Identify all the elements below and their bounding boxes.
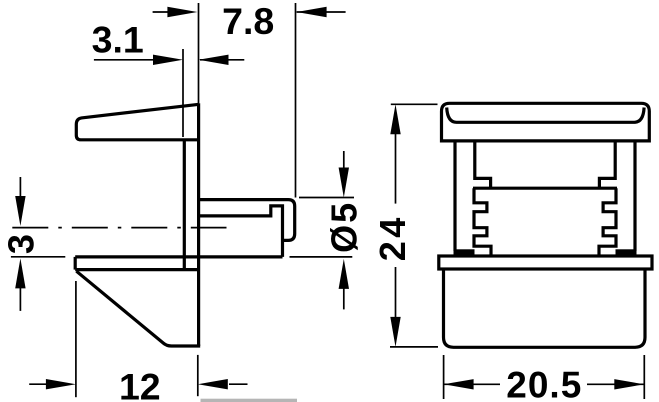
- bottom triangle bracket: [76, 271, 200, 346]
- arrow 3 bottom (points up): [15, 258, 25, 288]
- dimension 24: [390, 104, 438, 347]
- shelf strip left end: [74, 257, 77, 270]
- arrow 20.5 left (points left): [444, 379, 474, 389]
- right post foot: [616, 249, 637, 256]
- svg-text:7.8: 7.8: [222, 0, 274, 42]
- arrow diameter5 top (points down): [339, 168, 349, 198]
- dimension 3.1: [94, 59, 244, 61]
- extension line x=183: [182, 49, 184, 137]
- arrow diameter5 bottom (points up): [339, 259, 349, 289]
- arrow 7.8 right (points left): [297, 7, 327, 17]
- svg-text:20.5: 20.5: [506, 364, 582, 402]
- arrow 3 top (points down): [15, 196, 25, 226]
- top plate inner chamfer line: [447, 108, 644, 123]
- middle horizontal edge: [473, 187, 617, 190]
- right post outer edge: [633, 141, 636, 251]
- dimension 12: [29, 281, 247, 397]
- pin top edge with rounded tip: [199, 200, 295, 241]
- arrow 20.5 right (points right): [614, 379, 644, 389]
- arrow 3.1 right (points left): [199, 55, 229, 65]
- arrow 12 left (points right): [46, 379, 76, 389]
- extension line x=198.5 above plate: [198, 3, 200, 103]
- right post inner serrated contour: [599, 141, 615, 188]
- body with rounded bottom: [444, 269, 646, 347]
- pin inner groove line: [199, 206, 283, 257]
- svg-text:12: 12: [119, 366, 161, 402]
- plate right edge: [197, 103, 200, 346]
- arrow 3.1 (points right): [153, 55, 183, 65]
- dimension 3 vertical: [11, 177, 65, 311]
- shelf strip bottom edge: [75, 268, 198, 271]
- gray remnant bar at bottom: [201, 399, 298, 402]
- left post foot: [454, 249, 475, 256]
- dimension 7.8: [153, 11, 346, 13]
- left post outer edge: [453, 141, 456, 251]
- left post inner serrated contour: [475, 141, 491, 188]
- top plate: [442, 103, 650, 141]
- arrow 7.8 left (points right): [167, 7, 197, 17]
- dimension 20.5: [444, 355, 645, 399]
- svg-text:3.1: 3.1: [92, 19, 144, 61]
- top flap outline: [76, 104, 199, 140]
- svg-text:Ø5: Ø5: [323, 201, 364, 253]
- arrow 24 bottom (points down): [390, 317, 400, 347]
- extension line x=295.5: [295, 3, 297, 198]
- flange bar: [439, 256, 652, 269]
- plate left edge: [183, 140, 186, 270]
- arrow 12 right (points left): [198, 379, 228, 389]
- arrow 24 top (points up): [390, 104, 400, 134]
- right view: front view: [439, 103, 652, 347]
- left view: shelf support side profile: [75, 103, 295, 346]
- centerline dash-dot: [12, 227, 226, 229]
- dimension diameter 5: [290, 151, 355, 309]
- svg-text:24: 24: [372, 214, 413, 261]
- svg-text:3: 3: [0, 234, 41, 254]
- shelf strip top edge merging with pin bottom: [75, 255, 282, 258]
